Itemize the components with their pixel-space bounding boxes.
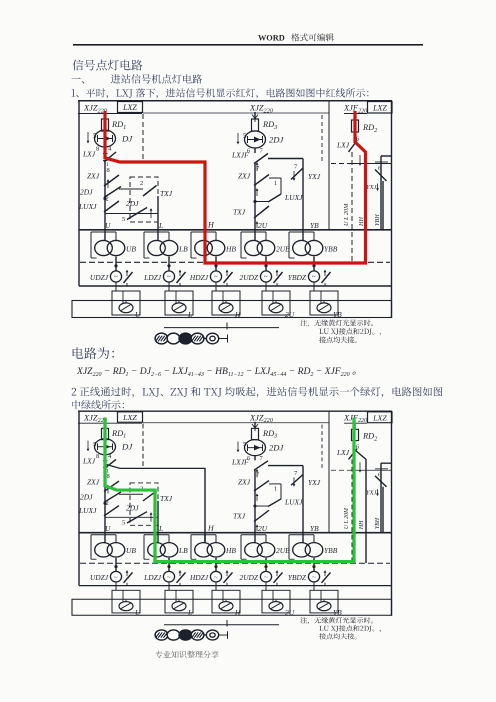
svg-text:YB: YB: [310, 221, 319, 230]
svg-text:H: H: [234, 310, 241, 319]
svg-text:U: U: [135, 310, 141, 319]
svg-text:YB: YB: [333, 310, 342, 319]
svg-text:L: L: [187, 310, 192, 319]
svg-text:L: L: [158, 221, 163, 230]
svg-text:XJZ220 − RD1 − DJ2−6 − LXJ41−4: XJZ220 − RD1 − DJ2−6 − LXJ41−43 − HB11−1…: [76, 366, 362, 378]
svg-text:U L 20M: U L 20M: [343, 203, 350, 226]
svg-text:YXJ: YXJ: [366, 184, 378, 191]
svg-text:YBDZ: YBDZ: [288, 273, 307, 282]
svg-text:LXZ: LXZ: [372, 104, 387, 113]
svg-text:YBH: YBH: [374, 214, 381, 226]
svg-text:WORD: WORD: [258, 34, 285, 43]
svg-text:2DJ: 2DJ: [126, 199, 139, 208]
svg-text:2: 2: [106, 196, 109, 203]
svg-text:~: ~: [167, 273, 171, 281]
svg-text:8: 8: [107, 167, 110, 174]
svg-text:ZXJ: ZXJ: [87, 172, 100, 181]
svg-text:HB: HB: [225, 245, 236, 254]
svg-text:ZXJ: ZXJ: [238, 172, 251, 181]
svg-text:LXZ: LXZ: [122, 103, 137, 112]
svg-text:2: 2: [140, 180, 143, 187]
svg-text:2DJ: 2DJ: [269, 135, 285, 145]
svg-text:YXJ: YXJ: [308, 172, 321, 181]
svg-text:YBB: YBB: [324, 245, 338, 254]
svg-text:UB: UB: [126, 245, 136, 254]
svg-text:~: ~: [114, 273, 118, 281]
svg-text:1: 1: [274, 180, 277, 187]
svg-text:HDZJ: HDZJ: [189, 273, 209, 282]
svg-text:~: ~: [214, 273, 218, 281]
svg-text:U: U: [105, 221, 111, 230]
svg-text:~: ~: [264, 273, 268, 281]
svg-text:2DJ: 2DJ: [80, 188, 93, 197]
svg-text:2UDZ: 2UDZ: [240, 273, 259, 282]
svg-text:TXJ: TXJ: [160, 189, 173, 198]
svg-text:LUXJ: LUXJ: [284, 193, 303, 202]
svg-text:DJ: DJ: [121, 134, 133, 144]
svg-text:LDZJ: LDZJ: [143, 273, 162, 282]
svg-text:UDZJ: UDZJ: [90, 273, 109, 282]
svg-text:LXJ: LXJ: [336, 141, 350, 150]
svg-text:LXJF: LXJF: [231, 151, 249, 160]
svg-text:2U: 2U: [285, 310, 295, 319]
svg-text:TXJ: TXJ: [233, 208, 246, 217]
svg-text:LXJ: LXJ: [82, 150, 96, 159]
svg-text:2UB: 2UB: [276, 245, 290, 254]
svg-text:~: ~: [312, 273, 316, 281]
svg-text:LB: LB: [178, 245, 188, 254]
svg-text:8: 8: [96, 146, 99, 153]
svg-text:5: 5: [122, 216, 125, 223]
svg-text:LUXJ: LUXJ: [78, 202, 97, 211]
svg-text:2U: 2U: [258, 221, 268, 230]
